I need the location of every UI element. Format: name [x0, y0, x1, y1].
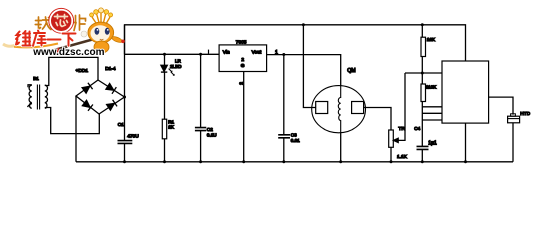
svg-text:LR: LR	[175, 59, 182, 64]
wire R1 to ground rail	[164, 139, 166, 162]
wire node A to IC pin	[405, 72, 442, 74]
wire transformer top lead to bridge top	[45, 57, 98, 85]
svg-text:470U: 470U	[127, 134, 139, 140]
svg-text:B1: B1	[33, 76, 39, 81]
node gnd-C4	[421, 160, 424, 163]
buzzer HTD	[508, 114, 520, 123]
wire IC output to buzzer	[489, 97, 513, 115]
capacitor C1	[118, 141, 133, 162]
node divider	[421, 72, 424, 75]
node rail-LED	[163, 53, 166, 56]
node VCC-sensor	[302, 23, 305, 26]
wire 16k to 110k	[421, 57, 423, 85]
ground rail	[76, 161, 513, 163]
wire tap to IC pin y113	[422, 112, 442, 114]
capacitor C4	[417, 146, 429, 161]
svg-text:0.1U: 0.1U	[207, 133, 217, 138]
diode D3 bottom-left	[82, 100, 93, 111]
resistor 16k	[421, 37, 426, 56]
node gnd-C1	[123, 160, 126, 163]
node gnd-C2	[199, 160, 202, 163]
wire bridge minus to ground rail	[75, 96, 77, 162]
watermark dzsc logo	[3, 8, 125, 58]
svg-text:16K: 16K	[427, 37, 436, 42]
wire Vout	[267, 55, 341, 86]
bridge rectifier D1-4 diamond	[76, 80, 125, 114]
op-amp U2 comparator box	[442, 61, 489, 123]
watermark red circle xin	[49, 8, 74, 33]
wire top rail VCC	[125, 25, 466, 61]
wire pot bottom to ground	[390, 147, 392, 162]
wire Vin rail y54	[125, 53, 220, 55]
diode D4 bottom-right	[106, 100, 117, 111]
svg-text:D1-4: D1-4	[105, 66, 116, 72]
svg-text:C1: C1	[118, 122, 124, 128]
LED LR	[161, 65, 175, 75]
svg-text:110K: 110K	[426, 84, 437, 89]
wire 7805 ground pin	[243, 72, 245, 162]
watermark orange swoosh	[14, 44, 58, 48]
svg-text:C3: C3	[291, 132, 297, 137]
svg-text:1: 1	[275, 50, 278, 56]
wire sensor heater bottom to ground	[340, 133, 342, 162]
svg-text:1µ1: 1µ1	[428, 140, 437, 146]
svg-text:C2: C2	[207, 127, 213, 132]
diode D1 top-left	[82, 83, 93, 94]
svg-text:1K: 1K	[168, 125, 175, 130]
node Vout-C3	[282, 53, 285, 56]
watermark text pian	[74, 15, 86, 31]
wire transformer bottom lead to bridge bottom	[45, 108, 100, 134]
wire buzzer to ground rail	[512, 123, 514, 162]
wire IC bottom pin to ground	[465, 123, 467, 162]
node VCC-16k	[421, 23, 424, 26]
watermark pale swoosh	[3, 44, 15, 46]
node gnd-sensor	[339, 160, 342, 163]
gas sensor QM	[312, 86, 366, 133]
node gnd-IC	[464, 160, 467, 163]
LED LR branch wire	[164, 54, 166, 65]
svg-text:2: 2	[241, 57, 244, 63]
node gnd-pot	[390, 160, 393, 163]
resistor R1	[162, 119, 166, 139]
svg-text:+DD1: +DD1	[76, 68, 89, 74]
capacitor C2	[195, 54, 206, 162]
svg-text:www.dzsc.com: www.dzsc.com	[32, 47, 104, 58]
wire tap to IC pin y107	[422, 106, 442, 108]
wire sensor right electrode to pot top	[364, 108, 391, 131]
svg-text:0.01: 0.01	[291, 138, 300, 143]
potentiometer TR	[389, 73, 405, 147]
wire LED to R1	[164, 72, 166, 119]
node gnd-C3	[282, 160, 285, 163]
capacitor C3	[278, 55, 290, 162]
svg-text:7805: 7805	[236, 40, 247, 46]
transformer B1	[28, 85, 48, 110]
node rail-C2	[199, 53, 202, 56]
label pin1 left	[208, 50, 209, 54]
svg-text:C4: C4	[414, 126, 420, 131]
watermark brush stick	[55, 39, 97, 51]
svg-text:2LBD: 2LBD	[170, 64, 182, 69]
wire tap to IC pin y120	[422, 119, 442, 121]
watermark text weiku yixia	[16, 31, 76, 46]
node bridge plus	[123, 96, 126, 99]
svg-text:Vin: Vin	[223, 49, 230, 55]
svg-text:G: G	[241, 63, 245, 69]
wire 16k top to rail	[421, 25, 423, 37]
resistor 110k	[421, 84, 426, 102]
watermark text zhao	[35, 17, 51, 30]
regulator U1 7805 box	[219, 45, 267, 72]
svg-text:Vout: Vout	[252, 49, 262, 55]
svg-text:QM: QM	[347, 68, 355, 74]
wire VCC drop to sensor left electrode	[303, 25, 315, 108]
svg-text:HTD: HTD	[520, 111, 530, 117]
wire vertical x124.5 (rail to C1)	[124, 25, 126, 141]
svg-text:TR: TR	[398, 126, 405, 132]
diode D2 top-right	[106, 83, 117, 94]
wire 110k bottom to C4	[421, 102, 423, 147]
watermark mascot	[81, 8, 125, 53]
node gnd-R1	[163, 160, 166, 163]
node gnd-7805	[242, 160, 245, 163]
svg-text:1.1K: 1.1K	[397, 154, 408, 160]
